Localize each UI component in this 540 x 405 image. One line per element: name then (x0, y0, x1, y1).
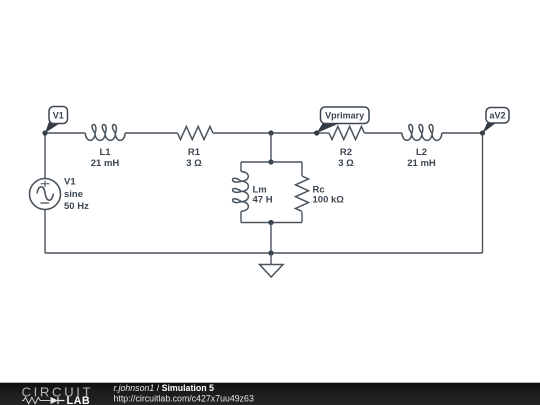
wire top: R1 to Vprimary node (213, 132, 317, 134)
wire parallel-branch bottom rail (241, 222, 302, 224)
inductor Lm (vertical) (233, 172, 249, 212)
wire top: L2 to right corner (442, 132, 483, 134)
label L1 21 mH (91, 147, 120, 169)
label Lm 47 H (253, 184, 273, 205)
svg-text:V1: V1 (64, 176, 76, 187)
inductor L1 (85, 125, 125, 141)
wire parallel-branch top rail (241, 161, 302, 163)
node dot bottom of parallel Lm/Rc (268, 220, 273, 225)
svg-text:L2: L2 (416, 147, 427, 158)
wire Rc top lead (301, 162, 303, 176)
inductor L2 (402, 125, 442, 141)
svg-text:R1: R1 (188, 147, 201, 158)
svg-text:Vprimary: Vprimary (325, 110, 364, 120)
svg-text:r.johnson1 / Simulation 5: r.johnson1 / Simulation 5 (114, 383, 215, 393)
node V1 junction dot (42, 130, 47, 135)
resistor R1 (178, 127, 213, 140)
node label Vprimary (317, 107, 369, 133)
wire left side: top corner down to source (44, 133, 46, 179)
label L2 21 mH (407, 147, 436, 169)
svg-text:LAB: LAB (67, 395, 91, 405)
wire top: V1 node to L1 (45, 132, 85, 134)
label R2 3 ohm (338, 147, 354, 169)
resistor R2 (329, 127, 364, 140)
wire right side down (482, 133, 484, 253)
wire: Vprimary node to R2 (317, 132, 329, 134)
node dot on bottom rail (268, 250, 273, 255)
wire bottom (45, 252, 483, 254)
node label aV2 (483, 108, 510, 134)
wire left side: source to bottom corner (44, 210, 46, 254)
wire Rc bottom lead (301, 212, 303, 223)
footer text (114, 383, 254, 403)
node aV2 junction dot (480, 130, 485, 135)
node dot top of parallel Lm/Rc (268, 159, 273, 164)
svg-text:sine: sine (64, 189, 83, 200)
svg-text:3 Ω: 3 Ω (186, 158, 202, 169)
wire Lm bottom lead (240, 211, 242, 222)
wire shunt: branch bottom to ground rail (270, 223, 272, 254)
wire Lm top lead (240, 162, 242, 172)
node Vprimary junction dot (314, 130, 319, 135)
CircuitLab logo (22, 385, 94, 405)
ground (260, 253, 284, 277)
svg-text:L1: L1 (99, 147, 111, 158)
svg-text:47 H: 47 H (253, 194, 273, 205)
footer bar (0, 383, 540, 405)
svg-text:R2: R2 (340, 147, 352, 158)
svg-text:3 Ω: 3 Ω (338, 158, 354, 169)
label Rc 100 kOhm (313, 184, 345, 205)
label R1 3 ohm (186, 147, 202, 169)
svg-text:100 kΩ: 100 kΩ (313, 194, 345, 205)
node junction dot (top of shunt branch) (268, 130, 273, 135)
wire top: L1 to R1 (125, 132, 177, 134)
resistor Rc (vertical) (296, 176, 309, 211)
voltage source V1 (sine) (30, 179, 61, 210)
svg-text:V1: V1 (53, 111, 64, 121)
svg-text:50 Hz: 50 Hz (64, 201, 89, 212)
label V1 sine 50 Hz (64, 176, 89, 212)
wire top: R2 to L2 (365, 132, 403, 134)
node label V1 (45, 107, 68, 134)
wire shunt: top node down (270, 133, 272, 162)
svg-text:aV2: aV2 (489, 110, 505, 120)
svg-text:http://circuitlab.com/c427x7uu: http://circuitlab.com/c427x7uu49z63 (114, 394, 254, 404)
svg-text:21 mH: 21 mH (407, 158, 436, 169)
svg-text:21 mH: 21 mH (91, 158, 120, 169)
